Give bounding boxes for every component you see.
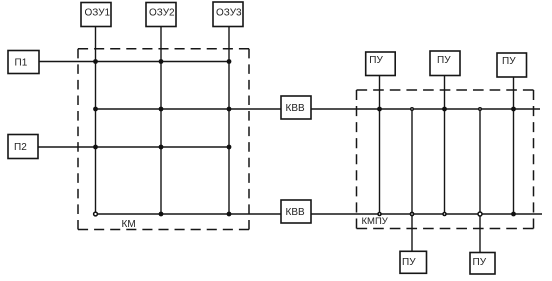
svg-text:КМПУ: КМПУ <box>362 216 389 227</box>
svg-text:ОЗУ3: ОЗУ3 <box>216 8 242 19</box>
svg-text:ПУ: ПУ <box>369 55 383 66</box>
svg-text:ПУ: ПУ <box>437 55 451 66</box>
svg-text:ОЗУ2: ОЗУ2 <box>149 8 175 19</box>
svg-text:КВВ: КВВ <box>286 207 305 218</box>
svg-text:КВВ: КВВ <box>286 103 305 114</box>
svg-text:П1: П1 <box>15 58 28 69</box>
svg-text:КМ: КМ <box>122 219 136 230</box>
svg-text:ОЗУ1: ОЗУ1 <box>85 8 111 19</box>
svg-text:ПУ: ПУ <box>402 257 416 268</box>
svg-text:ПУ: ПУ <box>473 257 487 268</box>
svg-text:ПУ: ПУ <box>502 56 516 67</box>
svg-text:П2: П2 <box>14 142 27 153</box>
